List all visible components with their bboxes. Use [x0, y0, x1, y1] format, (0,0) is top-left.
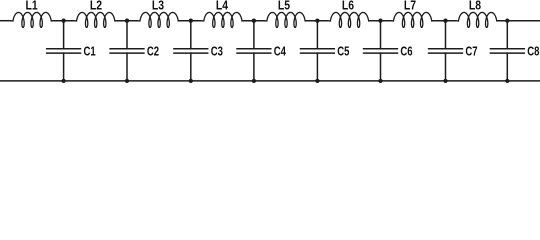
svg-text:C2: C2: [147, 44, 159, 58]
svg-text:L3: L3: [152, 0, 164, 13]
svg-text:C1: C1: [84, 44, 96, 58]
svg-text:C3: C3: [211, 44, 223, 58]
svg-text:L6: L6: [342, 0, 354, 13]
svg-text:C4: C4: [274, 44, 286, 58]
svg-text:L5: L5: [278, 0, 290, 13]
svg-text:C6: C6: [400, 44, 412, 58]
svg-text:L7: L7: [404, 0, 416, 13]
svg-text:C5: C5: [337, 44, 349, 58]
svg-text:L4: L4: [216, 0, 228, 13]
svg-text:C7: C7: [465, 44, 477, 58]
svg-text:L2: L2: [90, 0, 102, 13]
svg-text:C8: C8: [527, 44, 539, 58]
svg-text:L1: L1: [26, 0, 38, 13]
svg-text:L8: L8: [469, 0, 481, 13]
